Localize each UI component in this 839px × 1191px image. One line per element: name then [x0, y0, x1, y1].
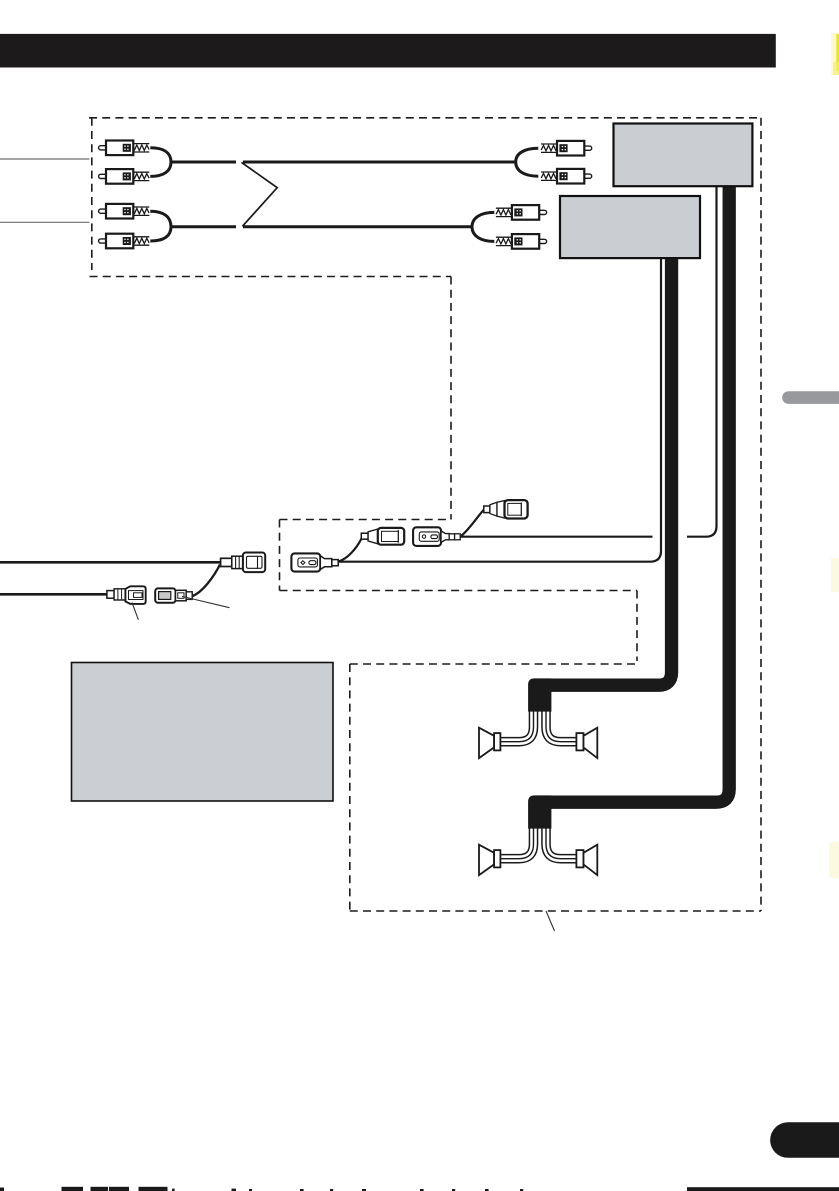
connector F1 female spade — [413, 527, 460, 546]
leader line top 1 — [0, 158, 90, 160]
dashed group — [89, 118, 761, 911]
dashed box3 left — [279, 520, 281, 591]
leader line top 2 — [0, 221, 90, 223]
faint yellow smudge mid right — [831, 558, 839, 592]
gray unit box 1 — [614, 124, 753, 187]
RCA main line 1 — [171, 161, 516, 164]
dashed box2 right — [450, 277, 452, 520]
wire A left segment — [460, 536, 653, 538]
RCA plug right group2 lower — [496, 234, 547, 249]
pigtail A-fem to M1 — [338, 539, 362, 562]
black page tab bottom right — [770, 1122, 839, 1158]
RCA plug right group1 upper — [541, 141, 592, 156]
gray page tab right — [782, 391, 839, 404]
connector C2 female left pair — [155, 588, 192, 602]
dashed box3 top — [280, 519, 449, 521]
dashed box4 right — [636, 591, 638, 662]
thick power cable from unit2 down to front speaker harness — [545, 257, 672, 685]
thick power cable from unit1 down to rear speaker harness — [545, 185, 729, 802]
RCA plug left 4 — [99, 234, 150, 249]
RCA plug left 2 — [99, 169, 150, 184]
callout line C2 — [182, 596, 230, 607]
dashed speaker box left — [349, 664, 351, 911]
right RCA loop group2 — [472, 212, 494, 241]
pigtail C2 to G — [192, 565, 220, 597]
speaker harness front — [479, 678, 597, 758]
RCA plug left 1 — [99, 141, 150, 156]
RCA plug left 3 — [99, 204, 150, 219]
wire to antenna male connector — [0, 561, 221, 564]
dashed box3 bottom — [280, 590, 638, 592]
RCA plug right group2 upper — [496, 205, 547, 220]
connector A female spade — [291, 553, 338, 571]
connector M1 male spade — [361, 528, 404, 545]
dashed right mega edge — [760, 118, 762, 911]
dashed speaker box top — [350, 663, 637, 665]
bottom cropped text fragments — [0, 1187, 839, 1191]
cable break chevron — [242, 162, 278, 226]
dashed box1 top — [89, 117, 761, 119]
thin antenna wire A from unit1 down-left (broken at crossing) — [687, 185, 717, 537]
dashed box1 left — [91, 118, 93, 270]
wire to left pair connector — [0, 593, 107, 596]
yellow edge tab top right — [831, 33, 839, 75]
header black bar — [0, 34, 776, 68]
chevron break gaps — [236, 158, 243, 167]
right RCA loop group1 — [516, 148, 539, 176]
left RCA loops — [150, 148, 171, 177]
callout line speaker box — [546, 911, 555, 931]
pigtail F1 to F2 — [460, 510, 484, 537]
speaker harness rear — [479, 795, 597, 875]
callout line C1 — [132, 603, 138, 620]
dashed box2 top — [90, 276, 452, 278]
dashed speaker box bottom — [350, 910, 761, 912]
faint yellow smudge lower right — [829, 842, 839, 878]
thin antenna wire B from unit2 down-left to connector — [338, 257, 661, 562]
RCA plug right group1 lower — [541, 169, 592, 184]
connector G (antenna male plug) — [221, 553, 266, 573]
RCA main line 2 — [171, 225, 472, 228]
connector F2 female spade upper — [484, 500, 528, 518]
gray text box bottom left — [72, 663, 334, 802]
connector C1 male left pair — [107, 586, 146, 604]
gray unit box 2 — [560, 196, 700, 258]
